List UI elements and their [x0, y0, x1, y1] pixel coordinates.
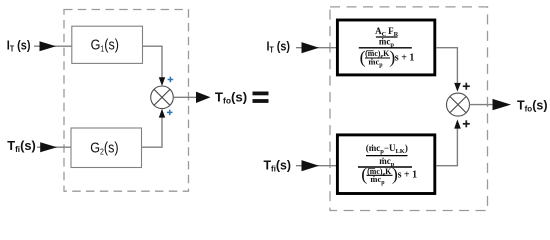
wire input Tfi to block U2 [296, 165, 336, 167]
arrowhead into G1 [40, 41, 57, 51]
svg-text:s + 1: s + 1 [395, 52, 415, 63]
arrowhead into block U2 [302, 160, 320, 171]
wire G1 output to summer [143, 46, 163, 79]
wire right summer to Tfo output [470, 104, 494, 106]
svg-text:Tfi(s): Tfi(s) [264, 158, 292, 173]
wire summer to Tfo output [173, 96, 197, 98]
wire input Tfi to G2 [37, 146, 71, 148]
svg-text:Tfo(s): Tfo(s) [215, 90, 247, 106]
arrowhead down into summer [159, 77, 165, 86]
arrowhead output left [196, 92, 211, 103]
wire G2 output to summer [142, 116, 163, 147]
transfer block (right top) [337, 20, 434, 75]
math: (mcp - ULK) over mcp [358, 143, 417, 186]
block G2 [71, 128, 142, 168]
plus sign (black, bottom of right summer) [463, 120, 470, 127]
arrowhead down into right summer [454, 83, 461, 92]
plus sign (blue, bottom of left summer) [167, 110, 173, 116]
plus sign (black, top of right summer) [463, 83, 470, 90]
equals sign [253, 92, 269, 96]
arrowhead output right [493, 99, 512, 110]
math: Ac FR over mcp [359, 26, 415, 68]
svg-text:Tfo(s): Tfo(s) [517, 98, 547, 113]
svg-text:G1(s): G1(s) [91, 37, 119, 54]
transfer block (right bottom) [337, 135, 434, 194]
svg-text:s + 1: s + 1 [398, 169, 418, 180]
summing junction (right) [447, 93, 470, 116]
block G1 [72, 26, 143, 63]
arrowhead up into right summer [454, 119, 461, 128]
plus sign (blue, top of left summer) [168, 77, 174, 83]
summing junction (left) [151, 86, 174, 109]
arrowhead up into summer [159, 109, 165, 118]
dashed subsystem box (right) [330, 7, 488, 211]
arrowhead into G2 [40, 142, 57, 152]
wire input IT to block U1 [296, 47, 336, 49]
wire block U2 to right summer [436, 127, 457, 166]
arrowhead into block U1 [302, 42, 320, 53]
svg-text:G2(s): G2(s) [90, 139, 118, 156]
wire input IT to G1 [34, 45, 72, 47]
svg-text:Tfi(s): Tfi(s) [7, 139, 36, 154]
wire block U1 to right summer [436, 48, 457, 84]
dashed subsystem box (left) [64, 10, 189, 192]
